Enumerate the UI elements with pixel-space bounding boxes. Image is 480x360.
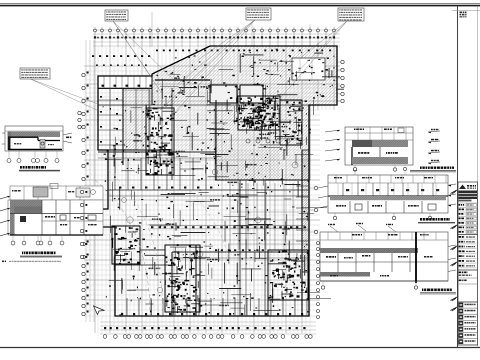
- top dimension lines: [93, 29, 340, 31]
- hatched zone top band: [152, 46, 337, 105]
- left dimension tick squares: [87, 72, 89, 74]
- section 4-4 caption: [420, 218, 422, 221]
- section 7-7 room cells: [41, 200, 43, 235]
- section 6-6 slab hatch: [8, 132, 60, 138]
- section 3-3 slab band: [352, 140, 408, 147]
- section 4-4 top bubbles: [354, 171, 356, 175]
- top grid bubbles: [94, 29, 97, 32]
- section 5-5 side ticks: [448, 245, 456, 247]
- section 7-7 caption: [22, 252, 23, 255]
- left grid bubbles overlay: [80, 190, 83, 193]
- right edge room partitions: [296, 185, 309, 187]
- top band right bubbles: [337, 61, 341, 63]
- interior partition walls: [145, 303, 153, 305]
- beam dash row y250: [215, 249, 217, 251]
- parking stall lines right block: [229, 183, 231, 250]
- hatched zone upper-right block: [215, 105, 310, 180]
- main floor plan: [78, 12, 344, 338]
- grid lines extended to top: [151, 12, 153, 47]
- title block signature rows: [459, 236, 462, 238]
- stair/elevator core upper-right: [238, 96, 280, 130]
- sheet frame top double border line: [0, 2, 480, 4]
- section 3-3 caption: [420, 167, 422, 169]
- section 3-3 side ticks: [325, 130, 340, 132]
- top dimension tick squares: [94, 36, 96, 38]
- section 6-6 bottom slab: [8, 149, 62, 151]
- mid-left room partitions: [114, 158, 116, 190]
- section detail 7-7: [0, 184, 103, 263]
- bottom grid bubbles: [103, 335, 107, 339]
- signature scribbles left of frame: [451, 190, 458, 194]
- section 5-5 bubbles: [322, 281, 324, 285]
- hatched zone wing right strip: [176, 105, 215, 150]
- section 5-5 thick wall: [415, 232, 417, 283]
- callout note box 4: [20, 68, 50, 79]
- section detail 5-5: [320, 223, 456, 294]
- white room cut in band: [292, 58, 325, 80]
- beam dash row y227: [150, 225, 305, 227]
- inner main walls: [98, 149, 172, 151]
- section 6-6 caption: [20, 166, 22, 169]
- section 6-6 side dimension marks: [63, 133, 72, 135]
- section 6-6 left wall: [8, 138, 10, 150]
- title block logo: [459, 185, 466, 190]
- callout note box 1: [105, 10, 128, 21]
- mouse cursor arrow: [94, 306, 105, 315]
- section 3-3 rooms: [351, 147, 353, 165]
- section 5-5 slab band: [320, 248, 418, 253]
- sheet frame bottom border line: [0, 347, 480, 349]
- bottom dimension tick squares: [104, 327, 106, 329]
- section 6-6 grid lines and bubbles: [8, 151, 10, 158]
- section 7-7 grid bubbles: [12, 235, 14, 241]
- right grid bubbles: [309, 187, 314, 189]
- stair core upper-left: [146, 108, 174, 175]
- section 5-5 caption: [422, 289, 423, 292]
- section 5-5 lower slab band: [320, 272, 370, 277]
- section 4-4 upper cells: [342, 183, 344, 196]
- title block empty box: [458, 301, 478, 303]
- title block info table: [458, 202, 478, 204]
- section 4-4 slab band: [330, 196, 446, 200]
- dashed driveway arcs: [95, 180, 150, 316]
- scattered detail marks: [309, 132, 310, 133]
- hatched zone left wing cells: [123, 90, 150, 150]
- section 7-7 upper room boxes: [23, 186, 25, 200]
- left rooms dividers: [98, 99, 123, 101]
- bottom row room partitions: [126, 298, 128, 316]
- section 3-3 bottom slab: [352, 157, 408, 164]
- section 5-5 cells: [337, 253, 339, 272]
- hatched zone mid band: [215, 150, 280, 180]
- section detail 6-6: [2, 126, 72, 172]
- callout note box 3: [338, 8, 364, 21]
- elevator core lower-right: [268, 250, 308, 300]
- section 7-7 left wall block: [10, 200, 15, 235]
- title block bottom table: [458, 301, 478, 303]
- stair core lower-center: [165, 245, 200, 312]
- section detail 3-3: [325, 127, 456, 172]
- section 7-7 slab bands: [10, 200, 42, 207]
- section 4-4 lower cells: [349, 201, 351, 213]
- title block firm name rows: [459, 191, 478, 194]
- building outer wall outline: [98, 46, 337, 316]
- hatched zone right corridor band: [302, 150, 309, 272]
- sheet frame right vertical border: [457, 6, 459, 348]
- corridor column circles: [246, 139, 250, 143]
- section 7-7 left leader arrows: [0, 196, 10, 199]
- section 4-4 bottom bubbles: [334, 213, 336, 216]
- grid extension lines: [94, 47, 96, 333]
- left grid bubbles: [78, 111, 81, 114]
- section 7-7 note line: [2, 261, 4, 263]
- section 3-3 bubbles: [354, 165, 356, 168]
- section detail 4-4: [318, 167, 456, 223]
- callout note box 2: [246, 8, 271, 20]
- left shop cell row: [98, 76, 152, 88]
- symbol circles: [127, 217, 133, 223]
- small revision mark top-right: [452, 10, 480, 12]
- left dimension lines: [85, 40, 87, 322]
- left dim dash rows: [92, 55, 94, 57]
- room label texts: [278, 126, 281, 128]
- section 4-4 side ticks: [318, 186, 328, 188]
- hatched rooms right of core: [280, 100, 302, 145]
- rooms embedded in top band: [210, 85, 237, 103]
- bottom dimension lines: [100, 321, 316, 323]
- title block: [451, 182, 478, 345]
- service core left: [112, 226, 140, 264]
- band scatter marks: [251, 64, 253, 67]
- band dash marks: [156, 50, 158, 52]
